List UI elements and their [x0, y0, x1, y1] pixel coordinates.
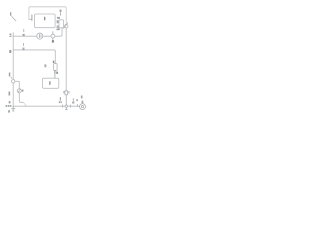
label cluster right of junction: [72, 99, 74, 104]
bars inside M1: [38, 34, 41, 38]
rail1 left labels: [10, 34, 12, 36]
tick above-left of junction circle: [11, 77, 12, 78]
label mid-left: [9, 73, 11, 77]
node symbol on rail2: [22, 43, 24, 50]
source circle bottom-left: [17, 89, 21, 93]
stub below junction: [65, 108, 67, 110]
wire top loop: [29, 7, 66, 25]
label left of R1 lead: [53, 61, 55, 64]
component box U1: [35, 14, 56, 28]
branch wire bottom-left: [15, 81, 24, 102]
node symbol on rail1: [22, 29, 25, 36]
resistor R1: [54, 64, 58, 71]
branch fade diagonal: [23, 102, 26, 106]
label left of R1: [44, 64, 46, 67]
right vertical wire: [65, 28, 67, 91]
R2 bottom lead: [65, 95, 67, 105]
glyph below V1: [52, 40, 54, 43]
label 'do' left of Q1: [57, 17, 60, 19]
junction diamond: [65, 105, 68, 108]
small component box Q1: [59, 20, 64, 28]
label below Q1: [58, 28, 60, 30]
label above junction left: [9, 101, 11, 103]
tick above Q1: [59, 13, 61, 16]
arrow through Q1: [64, 23, 68, 29]
dark tick on R1 lead: [54, 71, 56, 74]
label right of source: [22, 90, 24, 92]
label above G1 lower: [82, 101, 84, 104]
tick on rail left of junction: [62, 105, 64, 107]
R1 bottom lead: [54, 70, 56, 78]
label above G1 upper: [81, 96, 83, 99]
label right of U1 upper: [57, 20, 59, 23]
generator double circle G1: [80, 104, 86, 110]
label left of source: [9, 92, 11, 96]
source circle V1: [51, 32, 55, 40]
left vertical wire: [12, 36, 14, 106]
label above Q1: [60, 10, 62, 12]
glyph inside U2: [49, 81, 50, 85]
rail2 wire: [13, 50, 55, 64]
ground bottom-left: [12, 106, 15, 111]
wire lead into U1: [29, 18, 32, 20]
label node B left: [9, 50, 11, 53]
rail1 left stub: [12, 33, 14, 36]
label right of U1 lower: [57, 25, 59, 28]
tick on rail right of junction: [70, 105, 72, 107]
current arrow annotation near x60: [59, 98, 62, 104]
bottom box U2: [43, 78, 59, 88]
circle on right line: [64, 24, 68, 28]
label below ground: [8, 110, 10, 112]
meter circle M1: [37, 33, 43, 39]
label above V1: [56, 29, 58, 31]
label top-left floating: [10, 12, 16, 21]
label right of R1 lead: [56, 72, 58, 74]
tick left of G1: [76, 104, 78, 106]
bottom rail wire: [13, 105, 79, 107]
label dots beside R2: [63, 91, 64, 93]
label left of G1: [76, 99, 77, 101]
junction circle on left vertical: [12, 80, 15, 83]
resistor R2: [65, 91, 68, 95]
label text row below rail left: [6, 105, 8, 107]
rail1 wire: [13, 28, 62, 36]
terminal bar U1 left pin: [31, 15, 33, 21]
glyph inside U1: [43, 17, 46, 21]
